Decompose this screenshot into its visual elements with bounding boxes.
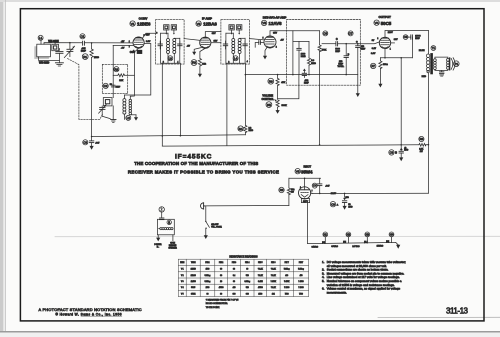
resistor R2 designator: [114, 67, 119, 72]
speaker SP1 cone: [451, 58, 455, 70]
wire AVC bus: [92, 135, 246, 137]
svg-text:150: 150: [345, 197, 349, 199]
transformer T1 primary: [426, 54, 429, 73]
svg-text:MMF: MMF: [81, 51, 87, 53]
svg-text:OUTPUT: OUTPUT: [379, 15, 392, 19]
svg-text:3: 3: [156, 32, 158, 34]
label 50MFD: [348, 204, 353, 208]
potentiometer R5 500K: [274, 99, 279, 110]
svg-text:PIN 4: PIN 4: [245, 262, 249, 264]
marker A detector: [303, 55, 306, 57]
transformer T1 designator: [431, 46, 436, 51]
node screen feed: [400, 57, 402, 59]
label 68 ohm 1W: [291, 188, 295, 193]
svg-text:R7: R7: [371, 64, 375, 68]
label 470MMF: [361, 45, 366, 50]
label OPEN REMOVE SPEAKER: [169, 243, 178, 250]
wire V2 screen: [211, 42, 221, 44]
resistor R4 2.2MEG: [244, 125, 247, 135]
wire C1 to grid: [84, 42, 133, 44]
svg-text:R8: R8: [420, 137, 424, 141]
svg-text:9.4: 9.4: [233, 275, 235, 277]
node antenna-gang junction: [69, 42, 71, 44]
pin digits V4: [377, 38, 391, 50]
wire osc cathode tap: [112, 106, 114, 120]
svg-text:H4: H4: [390, 233, 394, 237]
dial lamp box: [157, 219, 174, 235]
svg-text:35W4: 35W4: [191, 293, 195, 295]
svg-text:IF=455KC: IF=455KC: [175, 154, 212, 161]
switch on-off: [205, 221, 209, 236]
svg-text:95V: 95V: [212, 33, 216, 35]
svg-text:12VAC: 12VAC: [377, 245, 384, 248]
capacitor 470MMF right: [356, 42, 360, 94]
svg-text:MMF: MMF: [116, 86, 121, 88]
svg-text:H2: H2: [347, 233, 351, 237]
node grid resistor junction: [91, 42, 93, 44]
trimmer B box IF1: [171, 25, 176, 35]
svg-text:C9: C9: [390, 151, 394, 155]
wire V1 cathode: [130, 48, 138, 96]
svg-text:150Ω: 150Ω: [383, 63, 388, 66]
scan edge bottom: [0, 331, 500, 337]
svg-text:10: 10: [220, 281, 222, 283]
svg-text:12BE6: 12BE6: [191, 269, 196, 271]
interlock plug: [201, 203, 205, 209]
wire AF out to V4: [358, 42, 380, 44]
node IF2 pin4 detector rail: [245, 74, 247, 76]
resistor 5.6MEG detector: [307, 42, 310, 75]
coil IF2 primary: [226, 33, 235, 63]
wire B+ rail: [162, 145, 428, 146]
svg-text:.047: .047: [325, 185, 330, 188]
svg-text:1.: 1.: [322, 260, 325, 264]
wire vol top to detector: [278, 75, 299, 99]
wire pilot right lead: [172, 235, 174, 241]
svg-text:33: 33: [220, 275, 222, 277]
potentiometer R5 designator: [266, 102, 272, 108]
svg-text:540: 540: [246, 275, 249, 277]
svg-text:C4: C4: [313, 184, 317, 188]
wire interlock to V5: [205, 205, 289, 207]
label 5000MMF: [335, 49, 340, 54]
trimmer D box IF2: [237, 25, 242, 35]
ground arrow V2 cathode: [198, 74, 202, 78]
capacitor .047 AVC: [89, 137, 93, 146]
variable capacitor oscillator: [99, 105, 111, 119]
resistor R4 AVC designator: [238, 126, 243, 131]
svg-text:500K: 500K: [282, 105, 288, 107]
resistance table text: [180, 262, 304, 295]
IF transformer L4 can: [221, 20, 250, 65]
oscillator padder box B: [103, 98, 112, 106]
svg-text:[A]: [A]: [343, 241, 346, 244]
tube V1 12BE6: [133, 37, 144, 48]
detector dashed box: [287, 20, 361, 86]
node cathode: [384, 57, 386, 59]
tube V2 designator: [196, 21, 201, 26]
resistor 68 ohm surge: [287, 178, 290, 205]
ground arrow L2: [134, 115, 138, 121]
svg-text:7500: 7500: [285, 293, 289, 295]
svg-text:50C5: 50C5: [191, 287, 195, 289]
svg-text:A PHOTOFACT STANDARD NOTATI: A PHOTOFACT STANDARD NOTATION SCHEMATIC: [39, 307, 142, 312]
svg-text:5.6Meg: 5.6Meg: [205, 275, 211, 277]
svg-text:24 VAC: 24 VAC: [352, 245, 360, 248]
svg-text:85V: 85V: [214, 41, 218, 43]
svg-text:12BA6: 12BA6: [203, 21, 217, 26]
capacitor C7 designator: [348, 31, 353, 36]
svg-text:0.47M: 0.47M: [258, 281, 263, 283]
label 250MMF bypass: [304, 80, 309, 85]
svg-text:R9: R9: [280, 188, 284, 192]
ground arrow detector: [356, 93, 360, 97]
label C1 value: [81, 48, 87, 53]
ground arrow V3: [263, 48, 267, 60]
page seam line bottom: [378, 316, 500, 318]
variable capacitor tuning gang antenna: [64, 43, 74, 58]
svg-text:RESISTANCE READINGS: RESISTANCE READINGS: [229, 256, 258, 259]
svg-text:MMF: MMF: [361, 49, 366, 51]
svg-text:PIN 7: PIN 7: [285, 262, 289, 264]
svg-text:† 1800: † 1800: [298, 287, 303, 289]
svg-text:V1: V1: [131, 22, 135, 26]
svg-text:R1: R1: [83, 55, 87, 59]
svg-text:V 5: V 5: [181, 293, 184, 295]
heater tap circle 2: [346, 232, 351, 243]
svg-text:36VAC: 36VAC: [331, 245, 338, 248]
svg-text:1: 1: [390, 48, 391, 50]
svg-text:7: 7: [129, 46, 130, 48]
svg-text:12BE6: 12BE6: [137, 21, 151, 26]
svg-text:† 470K: † 470K: [271, 281, 277, 283]
svg-text:12BA6: 12BA6: [191, 274, 196, 277]
svg-text:MMF: MMF: [304, 82, 309, 84]
pilot lamp designator: [159, 207, 164, 212]
svg-text:V 4: V 4: [181, 287, 184, 289]
svg-text:DET-AVC-AF AMP: DET-AVC-AF AMP: [263, 16, 287, 20]
resistor 150 ohm cathode: [379, 58, 382, 84]
coil IF1 primary: [161, 33, 170, 63]
svg-text:440: 440: [233, 287, 236, 289]
label 1000MMF: [301, 54, 306, 59]
svg-text:-1V: -1V: [280, 39, 284, 41]
svg-text:C: C: [336, 38, 338, 41]
svg-text:6.: 6.: [322, 287, 325, 291]
svg-text:5: 5: [263, 37, 264, 39]
svg-text:99: 99: [220, 293, 222, 295]
svg-text:12AV6: 12AV6: [191, 280, 196, 283]
svg-text:V 1: V 1: [181, 269, 184, 271]
node AF right: [357, 43, 359, 45]
svg-text:WH-RED: WH-RED: [39, 61, 49, 64]
svg-text:0.9Meg: 0.9Meg: [244, 281, 250, 283]
svg-text:MEG: MEG: [311, 63, 316, 65]
label 1.2K 1W: [419, 149, 424, 153]
capacitor C coupling 5000MMF: [336, 42, 358, 46]
svg-text:RED: RED: [422, 76, 427, 78]
svg-text:TUBE: TUBE: [191, 262, 196, 264]
wire detector diode node: [293, 31, 309, 75]
node rail diode: [292, 74, 294, 76]
svg-text:CONTROL: CONTROL: [262, 98, 275, 101]
svg-text:60: 60: [233, 281, 235, 283]
resistor 47K: [276, 75, 279, 99]
wire IF2 pin4 down: [244, 63, 246, 125]
capacitor 250MMF bypass: [302, 69, 306, 78]
ground arrow V4 cathode: [378, 84, 382, 88]
ground arrow pilot: [156, 238, 160, 242]
svg-text:V 3: V 3: [181, 281, 184, 283]
svg-text:7500: 7500: [299, 293, 303, 295]
wire antenna top: [44, 43, 82, 45]
ground arrow input filter: [343, 206, 347, 210]
svg-text:12AV6: 12AV6: [269, 21, 283, 26]
resistor R9 surge designator: [279, 187, 284, 192]
wire detector B- rail: [245, 74, 357, 76]
wire screen to B+ rail: [400, 58, 402, 145]
wire V5 plate top: [289, 178, 321, 187]
tube V2 12BA6: [200, 37, 211, 48]
ground arrow filter: [399, 157, 403, 161]
oscillator tag box: [137, 50, 142, 53]
footer underline: [81, 316, 122, 318]
svg-text:† 1.2K: † 1.2K: [271, 287, 277, 289]
wire pilot left lead: [157, 235, 159, 238]
coil IF1 secondary: [173, 38, 180, 63]
IF transformer L3 can: [156, 20, 185, 65]
label ON-OFF VOL CONT: [211, 224, 222, 229]
node B+ transformer: [428, 144, 430, 146]
label 250MMF total: [337, 61, 344, 68]
wire V1 osc grid: [113, 44, 133, 46]
loop antenna L1 designator: [38, 35, 43, 40]
svg-text:3.1V: 3.1V: [372, 48, 377, 50]
svg-text:-8V: -8V: [121, 48, 125, 50]
wire IF2 to V3 diode: [249, 39, 264, 40]
capacitor C3 AVC designator: [83, 140, 88, 145]
resistor V2 cathode 44 ohm: [198, 48, 205, 74]
svg-text:[A.]: [A.]: [364, 240, 368, 243]
svg-text:[A]: [A]: [386, 240, 389, 243]
svg-text:R3: R3: [192, 61, 196, 65]
svg-text:† 1800: † 1800: [284, 287, 289, 289]
svg-text:4: 4: [247, 61, 249, 63]
svg-text:L2: L2: [127, 116, 131, 120]
svg-text:V3: V3: [262, 21, 266, 25]
speaker SP1 designator: [454, 61, 460, 67]
svg-text:311-13: 311-13: [446, 306, 469, 315]
capacitor C9A 50MFD: [337, 193, 350, 206]
svg-text:ON-OFF: ON-OFF: [211, 224, 219, 226]
svg-text:† 470K: † 470K: [284, 281, 290, 283]
svg-text:2: 2: [133, 51, 134, 53]
ground arrow switch: [204, 235, 208, 239]
capacitor C6 designator: [323, 31, 328, 36]
wire IF1 pin2 to B+ rail: [161, 63, 163, 146]
svg-text:1500: 1500: [258, 293, 262, 295]
capacitor 250MMF total: [344, 44, 350, 75]
node 121V filter: [344, 193, 346, 195]
svg-text:IF AMP: IF AMP: [202, 16, 212, 20]
svg-text:B: B: [395, 151, 397, 154]
tube V5 designator: [295, 169, 300, 174]
capacitor C2 designator: [103, 83, 108, 88]
svg-text:R4: R4: [239, 127, 243, 131]
svg-text:-2V: -2V: [121, 41, 125, 43]
svg-text:C7: C7: [349, 32, 353, 36]
capacitor V3 grid: [255, 41, 264, 48]
dial lamp designator: [167, 220, 171, 224]
svg-text:33: 33: [233, 269, 235, 271]
svg-text:2: 2: [276, 47, 277, 49]
svg-text:MEG: MEG: [94, 57, 99, 59]
svg-text:PIN 6: PIN 6: [271, 262, 275, 264]
svg-text:PIN 2: PIN 2: [219, 262, 223, 264]
svg-text:C9: C9: [331, 202, 335, 206]
page fold line: [55, 235, 500, 237]
capacitor C9B 40MFD: [395, 145, 403, 158]
node vol 47K top: [277, 74, 279, 76]
label VOLUME CONTROL: [262, 95, 275, 101]
svg-text:H3: H3: [366, 233, 370, 237]
resistance table grid: [178, 259, 308, 296]
wire trimmer top: [54, 43, 56, 45]
capacitor IF2 primary: [223, 41, 227, 49]
svg-text:110V: 110V: [388, 32, 394, 34]
resistor R1 MEG: [90, 43, 93, 137]
svg-text:B–: B–: [157, 247, 159, 249]
svg-text:430: 430: [285, 275, 288, 277]
svg-text:TP-TIE POINT.: TP-TIE POINT.: [206, 307, 220, 309]
chassis ground oscillator: [111, 120, 116, 123]
node AF mid: [345, 43, 347, 45]
svg-text:MFD: MFD: [348, 206, 353, 208]
capacitor C9A input filter designator: [330, 202, 335, 207]
svg-text:© Howard W. Sams & Co., Inc. 1: © Howard W. Sams & Co., Inc. 1956: [56, 313, 122, 317]
resistor 470K plate load: [318, 31, 321, 145]
node IF1 pin4 AVC end: [180, 135, 182, 137]
svg-text:CONV: CONV: [139, 16, 148, 20]
svg-text:MMF: MMF: [415, 38, 420, 40]
chassis ground antenna: [55, 63, 63, 66]
svg-text:-2V: -2V: [187, 46, 191, 48]
svg-text:L4: L4: [234, 56, 238, 60]
svg-text:95V: 95V: [146, 35, 150, 37]
svg-text:A: A: [337, 204, 339, 207]
svg-text:MEG: MEG: [249, 130, 254, 132]
resistor R2 22K: [113, 74, 134, 77]
svg-text:800: 800: [246, 293, 249, 295]
svg-text:† 1.2K: † 1.2K: [271, 275, 277, 277]
IF2 internal frame: [226, 33, 245, 63]
wire IF1 pin4 to AVC bus: [179, 63, 181, 136]
pin digits V3: [263, 37, 277, 48]
capacitor IF2 secondary: [243, 41, 247, 49]
ground arrow AVC: [90, 146, 94, 150]
svg-text:RECT: RECT: [303, 165, 311, 169]
svg-text:5.6Meg: 5.6Meg: [205, 281, 211, 283]
dial lamp coil: [159, 228, 173, 230]
svg-text:2500: 2500: [206, 287, 210, 289]
pin digits V5: [300, 187, 313, 193]
svg-text:C6: C6: [324, 32, 328, 36]
capacitor C9B output filter designator: [389, 150, 394, 155]
svg-text:104: 104: [272, 293, 275, 295]
node AVC cap junction: [91, 136, 93, 138]
wire osc grid vertical: [112, 45, 114, 97]
svg-text:† 4500: † 4500: [298, 281, 303, 283]
speaker SP1 voice coil: [447, 58, 450, 70]
tube V3 designator: [261, 20, 266, 25]
wire V2 plate to IF2: [205, 32, 221, 37]
resistor V2 cathode designator: [191, 60, 197, 66]
resistor R1 designator: [82, 54, 88, 60]
coil L3 designator: [168, 56, 173, 61]
wire WH-RED lead: [39, 57, 60, 61]
svg-text:35V: 35V: [273, 33, 277, 35]
wire IF2 pin2 to B+ rail: [226, 63, 228, 145]
capacitor C2: [111, 85, 115, 87]
capacitor C1 designator: [80, 34, 85, 39]
svg-text:[A]: [A]: [322, 241, 325, 244]
node IF1 pin2 AVC crossing: [162, 135, 164, 137]
svg-text:47500: 47500: [258, 287, 263, 289]
svg-text:VOL. CONT.: VOL. CONT.: [211, 227, 222, 229]
node rect cap: [319, 193, 321, 195]
svg-text:MMF: MMF: [335, 51, 340, 53]
svg-text:121V: 121V: [331, 193, 337, 195]
svg-text:C1: C1: [81, 34, 85, 38]
heater tap circle 3: [365, 232, 370, 243]
dashed gang link antenna: [68, 59, 103, 120]
wire heater string: [308, 243, 396, 244]
wire red lead down: [427, 73, 429, 193]
svg-text:ITEM: ITEM: [180, 262, 185, 264]
node B+ 470K: [319, 144, 321, 146]
coil L2 primary: [123, 95, 126, 119]
label 40MFD: [404, 146, 409, 151]
node B+ screen: [400, 144, 402, 146]
svg-text:47500: 47500: [219, 287, 224, 289]
svg-text:470K: 470K: [322, 49, 327, 52]
wire V4 cathode-screen node: [380, 43, 412, 58]
svg-text:450: 450: [300, 275, 303, 277]
IF1 internal frame: [161, 33, 180, 63]
tube V4 50C5: [379, 37, 390, 48]
svg-text:L3: L3: [169, 56, 173, 60]
svg-text:P1: P1: [454, 62, 458, 66]
svg-text:V 2: V 2: [181, 275, 184, 277]
svg-text:† 1.2K: † 1.2K: [271, 269, 277, 271]
svg-text:6.3V: 6.3V: [371, 53, 376, 55]
heater tap circle 1: [323, 232, 328, 243]
wire V3 plate top: [270, 31, 320, 36]
wire IF1 to V2 grid: [184, 39, 200, 41]
svg-text:V2: V2: [197, 22, 201, 26]
capacitor 1000MMF: [297, 42, 301, 75]
svg-text:30: 30: [220, 269, 222, 271]
capacitor pilot: [160, 212, 164, 220]
svg-text:1: 1: [129, 41, 130, 43]
capacitor antenna trimmer: [56, 49, 63, 63]
svg-text:C8: C8: [404, 35, 408, 39]
antenna trimmer box A: [52, 44, 59, 50]
wire V4 plate: [385, 31, 428, 38]
svg-text:THE COOPERATION OF THE MANUFAC: THE COOPERATION OF THE MANUFACTURER OF T…: [134, 161, 258, 166]
svg-text:V5: V5: [296, 169, 300, 173]
svg-text:22K: 22K: [119, 80, 123, 82]
